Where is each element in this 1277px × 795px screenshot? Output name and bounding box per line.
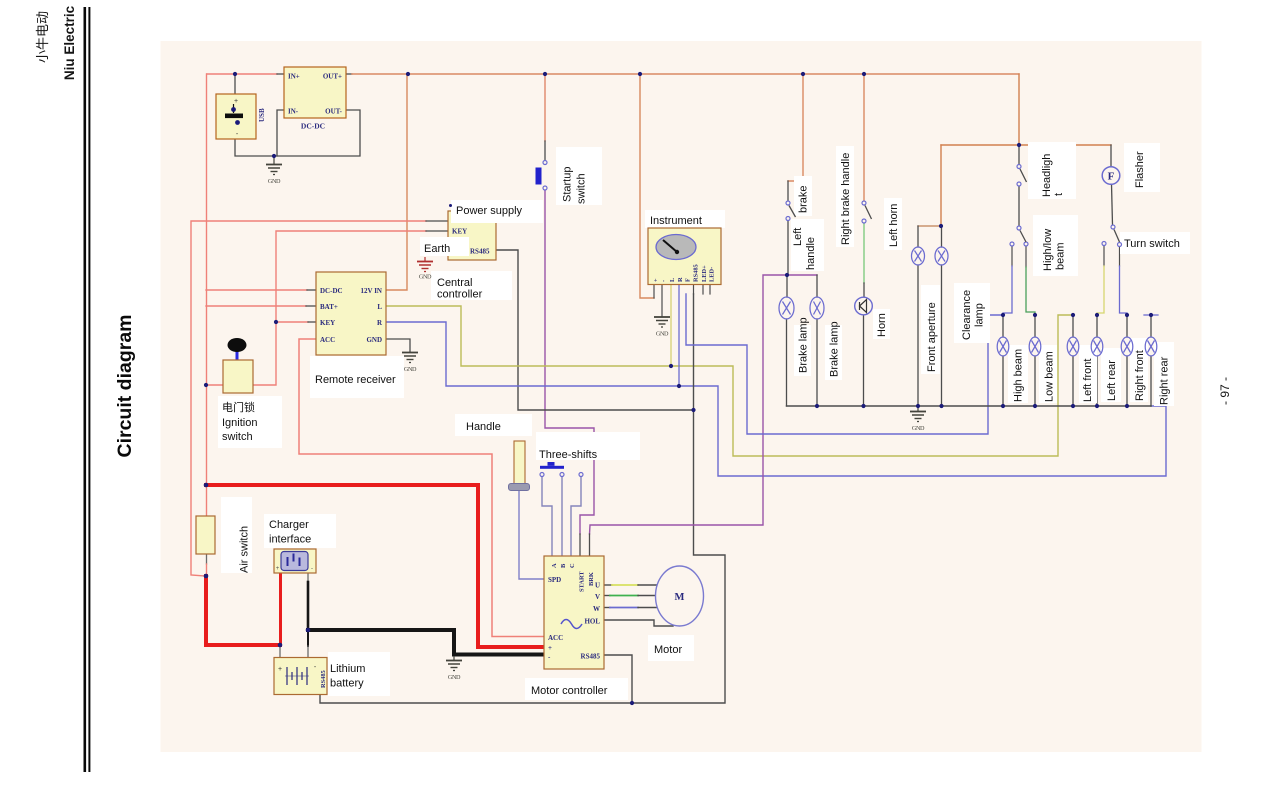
wire: dropper to instrument plus	[640, 74, 654, 298]
wire: startup switch gray stub	[544, 141, 546, 160]
label patch: Front aperture	[921, 285, 940, 374]
wire: front aperture feed drop	[940, 145, 942, 226]
svg-text:Left horn: Left horn	[888, 204, 900, 247]
label patch: High/low beam	[1033, 215, 1078, 276]
wire: START gray stub	[579, 534, 581, 556]
svg-text:KEY: KEY	[452, 228, 467, 236]
label patch: brake	[794, 176, 812, 216]
label patch: Motor controller	[525, 678, 628, 700]
svg-text:12V IN: 12V IN	[361, 287, 382, 295]
svg-text:Brake lamp: Brake lamp	[798, 317, 810, 373]
svg-text:Handle: Handle	[466, 421, 501, 433]
svg-text:-: -	[661, 280, 668, 282]
wire: instrument R drop blue	[678, 284, 680, 386]
wire: motor controller RS485 stub	[604, 655, 632, 703]
svg-text:Air switch: Air switch	[239, 526, 251, 573]
wire: instrument LED+ stub	[702, 284, 704, 294]
wire: motor U gray end	[638, 584, 657, 586]
wire: right front lamp stub	[1126, 315, 1128, 337]
svg-text:GND: GND	[419, 274, 432, 281]
svg-text:IN-: IN-	[288, 108, 299, 116]
lamp: right front	[1121, 337, 1133, 356]
wire: instrument LED- stub	[709, 284, 711, 294]
label patch: Startup switch	[556, 147, 602, 205]
wire: high beam lamp stub	[1002, 315, 1004, 337]
svg-text:Low beam: Low beam	[1044, 351, 1056, 402]
lamp: clearance lamp	[935, 247, 948, 265]
wire: receiver BAT+ stub	[306, 305, 316, 307]
wire: IN- drop	[277, 110, 284, 156]
svg-text:Circuit diagram: Circuit diagram	[114, 314, 136, 457]
svg-text:A: A	[551, 563, 558, 568]
central controller U2 box	[448, 211, 496, 260]
svg-text:Instrument: Instrument	[650, 215, 702, 227]
wire: receiver R (blue) long run	[386, 322, 1166, 476]
wire: low beam drop green	[1025, 246, 1027, 267]
svg-text:GND: GND	[656, 331, 669, 338]
wire: controller RS485 to net	[496, 250, 694, 410]
wire: brake lamp1 stem	[786, 319, 788, 406]
label patch: Handle	[455, 414, 532, 436]
svg-text:Horn: Horn	[876, 313, 888, 337]
wire: RS485 riser to instrument	[632, 294, 725, 703]
switch: left handle brake	[786, 201, 796, 221]
wire: instrument L drop yellow	[670, 284, 672, 366]
switch: high/low beam	[1010, 226, 1028, 246]
wire: motor W gray end	[638, 607, 657, 609]
wire: dropper to 12V IN	[386, 74, 407, 290]
svg-text:beam: beam	[1055, 242, 1067, 270]
wire: clearance lamp stub	[941, 226, 943, 247]
label patch: Low beam	[1039, 345, 1057, 403]
wire: receiver DC-DC feed	[206, 289, 307, 291]
svg-text:Right brake handle: Right brake handle	[840, 153, 852, 245]
svg-text:Remote receiver: Remote receiver	[315, 374, 396, 386]
wire: three-shifts C	[571, 476, 581, 556]
wire: right front drop blue	[1119, 247, 1121, 266]
label patch: Central controller	[431, 271, 512, 300]
svg-text:+: +	[653, 278, 660, 282]
wire: low beam lamp stem	[1034, 356, 1036, 406]
svg-text:GND: GND	[268, 178, 281, 185]
horn symbol	[855, 297, 873, 315]
svg-text:brake: brake	[798, 185, 810, 213]
ground: USB converter GND	[266, 156, 282, 175]
svg-text:C: C	[569, 563, 576, 568]
double rule line 1	[84, 7, 87, 772]
label patch: Charger interface	[264, 514, 336, 548]
wire: dropper to headlight group	[1018, 74, 1020, 145]
ground: lamp bus GND	[910, 406, 926, 422]
wire: headlight switch stub	[1018, 147, 1020, 164]
lamp: right rear	[1145, 337, 1157, 356]
switch: right brake handle	[862, 201, 872, 223]
switch: turn switch	[1102, 225, 1122, 247]
svg-text:Ignition: Ignition	[222, 417, 257, 429]
wire: three-shifts B	[561, 476, 563, 556]
wire: horn stub	[863, 283, 865, 297]
svg-text:RS485: RS485	[320, 670, 327, 688]
svg-text:Flasher: Flasher	[1134, 151, 1146, 188]
charger interface box	[274, 549, 316, 573]
wire: battery feed to DC-DC IN+	[207, 73, 277, 75]
ground: central controller red GND (Earth)	[417, 257, 433, 272]
svg-text:BRK: BRK	[588, 572, 595, 586]
svg-text:ACC: ACC	[320, 336, 335, 344]
svg-text:- 97 -: - 97 -	[1218, 377, 1232, 405]
controller AC tilde symbol	[561, 620, 582, 629]
svg-text:+: +	[278, 666, 282, 673]
wire: BRK gray stub	[589, 534, 591, 556]
wire: receiver GND	[386, 339, 410, 352]
svg-text:switch: switch	[222, 431, 253, 443]
switch: headlight	[1017, 165, 1027, 187]
label patch: Left rear	[1101, 348, 1121, 402]
wire: high beam drop blue	[1011, 246, 1013, 266]
wire: dropper to right brake switch	[863, 74, 865, 201]
svg-text:GND: GND	[912, 425, 925, 432]
wire: startup switch to START pin (purple)	[545, 190, 594, 534]
svg-text:小牛电动: 小牛电动	[35, 11, 50, 63]
double rule line 2	[88, 7, 90, 772]
svg-text:Clearance: Clearance	[961, 290, 973, 340]
wire: IN+ gray stub	[277, 73, 284, 75]
wire: flasher to turn switch	[1112, 184, 1113, 225]
svg-text:Central: Central	[437, 277, 472, 289]
label patch: Earth	[420, 237, 469, 256]
label patch: Ignition switch	[218, 396, 282, 448]
wire: clearance lamp stem	[941, 265, 943, 406]
wire: front aperture lamp stem	[917, 265, 919, 406]
lamp: brake lamp 2	[810, 297, 824, 319]
svg-text:LED+: LED+	[701, 265, 708, 282]
svg-text:OUT+: OUT+	[323, 73, 342, 81]
label patch: Brake lamp 1	[794, 325, 811, 376]
svg-text:LED-: LED-	[709, 267, 716, 282]
svg-text:Motor: Motor	[654, 644, 682, 656]
label patch: Motor	[648, 635, 694, 661]
wire: USB bottom to ground bar	[235, 110, 360, 156]
wire: high beam lamp stem	[1002, 356, 1004, 406]
svg-text:START: START	[579, 571, 586, 592]
svg-text:L: L	[669, 278, 676, 282]
lamp: brake lamp 1	[779, 297, 794, 319]
motor M1	[656, 566, 704, 626]
lamp: high beam	[997, 337, 1009, 356]
wire: receiver L (olive) long run	[386, 306, 1073, 456]
wire: motor V phase	[604, 595, 610, 597]
remote receiver box	[316, 272, 386, 355]
svg-text:controller: controller	[437, 289, 483, 301]
svg-text:DC-DC: DC-DC	[320, 287, 343, 295]
svg-text:-: -	[311, 566, 313, 572]
svg-text:HOL: HOL	[584, 618, 600, 626]
wire: left rear lamp stub	[1096, 315, 1098, 337]
svg-text:DC-DC: DC-DC	[301, 122, 325, 131]
svg-text:IN+: IN+	[288, 73, 300, 81]
svg-text:R: R	[677, 277, 684, 282]
wire: high beam indicator net (blue, from instrument F)	[686, 294, 1003, 434]
svg-text:battery: battery	[330, 678, 364, 690]
wire: battery minus stub gray	[307, 646, 309, 657]
wire: lamp bus	[787, 405, 1152, 407]
wire: motor U phase	[604, 584, 612, 586]
wire: receiver DC-DC stub	[307, 289, 316, 291]
wire: left rear lamp stem	[1096, 356, 1098, 406]
svg-text:OUT-: OUT-	[325, 108, 343, 116]
wire: instrument RS485 stub	[693, 284, 695, 294]
wire: flasher top stub	[1110, 145, 1112, 167]
label patch: Three-shifts	[536, 432, 640, 460]
svg-text:电门锁: 电门锁	[222, 400, 255, 414]
wire: controller KEY feed	[253, 231, 426, 385]
svg-text:Left rear: Left rear	[1106, 360, 1118, 401]
lamp: low beam	[1029, 337, 1041, 356]
ground: instrument GND	[654, 317, 670, 327]
wire: receiver ACC to motor controller	[299, 339, 544, 637]
svg-text:+: +	[548, 644, 552, 652]
label patch: Left front	[1079, 345, 1097, 403]
wire: charger positive drop	[279, 573, 282, 645]
wire: front aperture lamp stub	[917, 226, 919, 247]
svg-text:ACC: ACC	[548, 634, 563, 642]
lamp: front aperture	[912, 247, 925, 265]
wire: left brake switch stub	[787, 181, 789, 201]
wire: left front lamp stem	[1072, 356, 1074, 406]
svg-text:KEY: KEY	[320, 319, 335, 327]
wire: instrument plus stub	[653, 284, 655, 298]
wire: brake lamp1 stub	[786, 275, 788, 297]
lithium battery box	[274, 658, 327, 695]
label patch: Left handle	[791, 219, 824, 271]
svg-text:U: U	[595, 582, 600, 590]
svg-text:Niu Electric: Niu Electric	[62, 5, 77, 80]
label patch: Instrument	[645, 210, 725, 228]
wire: brake lamp2 stub	[816, 275, 818, 297]
handle throttle symbol	[509, 441, 530, 491]
label patch: Lithium battery	[328, 652, 390, 696]
wire: instrument minus stub	[661, 284, 663, 316]
wire: battery positive thick red	[206, 485, 544, 647]
wire: controller top pin gray stub	[426, 220, 448, 222]
svg-text:Startup: Startup	[562, 167, 574, 202]
svg-text:RS485: RS485	[470, 248, 490, 256]
label patch: Right brake handle	[836, 146, 854, 247]
wire: handle SPD blue	[519, 490, 544, 579]
svg-text:F: F	[685, 278, 692, 282]
label patch: Horn	[873, 309, 890, 339]
charger connector symbol	[276, 552, 313, 573]
svg-text:Headligh: Headligh	[1041, 154, 1053, 197]
wire: BRK purple to brake circuit	[590, 275, 818, 534]
wire: motor U yellow segment	[612, 584, 638, 586]
junction dots on nets	[233, 72, 237, 76]
svg-text:Charger: Charger	[269, 519, 309, 531]
svg-text:M: M	[675, 592, 685, 603]
svg-text:Earth: Earth	[424, 243, 450, 255]
wire: thick red battery to charger branch	[206, 576, 280, 645]
svg-text:switch: switch	[576, 173, 588, 204]
instrument cluster box	[648, 228, 721, 285]
wire: left rear drop yellow	[1103, 246, 1105, 266]
wire: top distribution bus	[352, 73, 1019, 75]
svg-text:interface: interface	[269, 534, 311, 546]
label patch: Clearance lamp	[954, 283, 990, 343]
pin marker on central controller	[449, 204, 452, 207]
wire: dropper to left brake switch	[788, 74, 803, 181]
wire: lighting feed horizontal	[941, 144, 1111, 146]
svg-text:B: B	[560, 563, 567, 568]
wire: horn stem	[863, 315, 865, 406]
wire: battery RS485 run	[320, 695, 632, 704]
ground: remote receiver GND symbol	[402, 353, 418, 363]
wire: battery negative thick black	[308, 630, 544, 655]
ignition switch box	[223, 360, 253, 393]
wire: brake lamp2 stem	[816, 319, 818, 406]
svg-text:SPD: SPD	[548, 576, 561, 584]
wire: controller top pin feed	[191, 221, 426, 576]
svg-text:USB: USB	[258, 108, 266, 122]
label patch: Air switch	[221, 497, 252, 573]
wire: low beam lamp stub	[1034, 315, 1036, 337]
wire: motor HOL	[604, 620, 673, 626]
svg-text:High/low: High/low	[1042, 229, 1054, 271]
svg-text:lamp: lamp	[974, 303, 986, 327]
svg-text:BAT+: BAT+	[320, 303, 338, 311]
DC-DC converter box	[284, 67, 346, 118]
diagram background area	[161, 41, 1202, 752]
svg-text:Front aperture: Front aperture	[926, 302, 938, 372]
svg-text:W: W	[593, 605, 600, 613]
label patch: Power supply	[451, 200, 543, 223]
svg-text:Left front: Left front	[1082, 359, 1094, 402]
svg-text:Right rear: Right rear	[1159, 356, 1171, 405]
instrument gauge dial	[656, 235, 696, 260]
wire: right rear lamp stem	[1150, 356, 1152, 406]
wire: motor W phase	[604, 607, 610, 609]
label patch: Remote receiver	[310, 356, 404, 398]
wire: motor W blue segment	[610, 607, 638, 609]
wire: OUT+ stub	[346, 73, 352, 75]
ground: battery black GND	[446, 656, 462, 671]
label patch: Right rear	[1154, 342, 1174, 406]
wire: controller KEY gray stub	[426, 230, 448, 232]
label patch: High beam	[1008, 345, 1028, 403]
label patch: Left horn	[884, 198, 902, 250]
wire: battery minus stub	[307, 630, 309, 646]
wire: charger negative stub	[307, 573, 309, 582]
svg-text:L: L	[377, 303, 382, 311]
svg-text:Three-shifts: Three-shifts	[539, 449, 598, 461]
three-shifts switch S2	[540, 462, 583, 477]
ignition switch key symbol	[228, 338, 247, 373]
wire: battery plus stub	[279, 645, 281, 657]
svg-text:RS485: RS485	[693, 264, 700, 282]
wire: motor V gray end	[638, 595, 657, 597]
wire: dropper to startup switch	[544, 74, 546, 141]
svg-text:t: t	[1053, 193, 1065, 196]
svg-text:Left: Left	[792, 228, 804, 246]
label patch: Turn switch	[1120, 232, 1190, 254]
wire: right rear tiny blue stub	[1144, 314, 1158, 316]
label patch: Headlight	[1028, 142, 1076, 199]
svg-text:RS485: RS485	[581, 653, 601, 661]
USB module box	[216, 94, 256, 139]
svg-text:Brake lamp: Brake lamp	[829, 321, 841, 377]
wire: charger negative drop black	[307, 582, 310, 630]
wire: receiver KEY link	[276, 321, 308, 323]
wire: left brake switch lower	[787, 220, 789, 275]
flasher relay F	[1102, 167, 1120, 185]
wire: receiver KEY stub	[308, 321, 316, 323]
USB plug symbol	[225, 98, 243, 138]
wire: USB top stub	[234, 74, 236, 94]
lamp: left front	[1067, 337, 1079, 356]
label patch: Right front	[1130, 338, 1148, 402]
svg-text:Lithium: Lithium	[330, 663, 365, 675]
wire: headlight to high/low	[1018, 186, 1020, 226]
wire: right front lamp stem	[1126, 356, 1128, 406]
svg-text:+: +	[276, 566, 280, 572]
wire: ignition switch left link	[206, 384, 223, 386]
svg-text:+: +	[234, 98, 238, 105]
svg-text:handle: handle	[805, 237, 817, 270]
svg-text:Power supply: Power supply	[456, 205, 523, 217]
wire: front aperture branch	[918, 225, 941, 227]
svg-text:Right front: Right front	[1134, 350, 1146, 401]
wire: right rear lamp stub	[1150, 315, 1152, 337]
wire: receiver BAT+ feed	[206, 305, 306, 307]
air switch box	[196, 516, 215, 554]
svg-text:Turn switch: Turn switch	[1124, 238, 1180, 250]
label patch: Brake lamp 2	[825, 325, 842, 380]
svg-text:GND: GND	[404, 366, 417, 373]
wire: rail stub to junction	[206, 564, 208, 576]
wire: main left vertical rail x207	[206, 74, 208, 516]
lamp: left rear	[1091, 337, 1103, 356]
svg-text:Motor controller: Motor controller	[531, 685, 608, 697]
wire: three-shifts A	[542, 476, 552, 556]
battery cells symbol	[285, 667, 309, 685]
label patch: Flasher	[1124, 143, 1160, 192]
svg-text:GND: GND	[366, 336, 382, 344]
wire: rail below air switch	[206, 554, 208, 564]
wire: left front lamp stub	[1072, 315, 1074, 337]
svg-text:V: V	[595, 593, 600, 601]
wire: horn switch lower green	[863, 223, 865, 283]
startup switch S1	[536, 161, 548, 191]
svg-text:F: F	[1108, 171, 1115, 183]
wire: motor V green segment	[610, 595, 638, 597]
svg-text:GND: GND	[448, 674, 461, 681]
motor controller U3 box	[544, 556, 604, 669]
svg-text:High beam: High beam	[1013, 349, 1025, 402]
